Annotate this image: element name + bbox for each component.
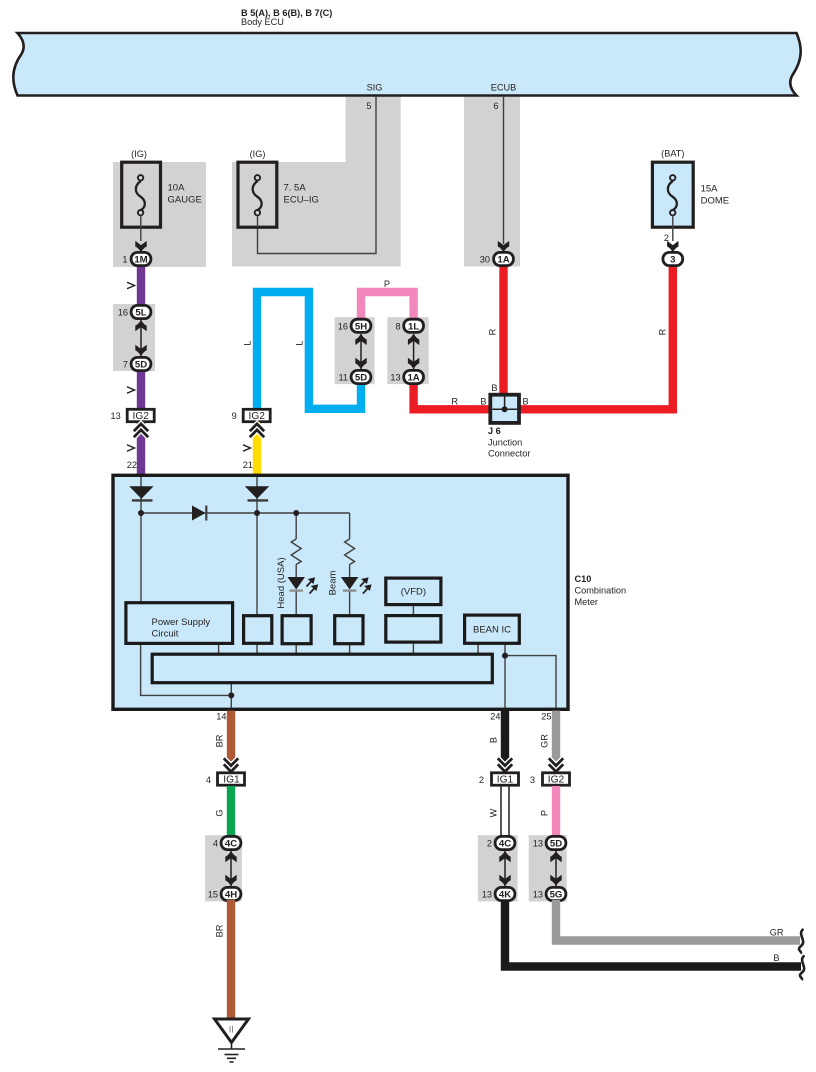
svg-text:GAUGE: GAUGE	[168, 195, 202, 206]
svg-text:W: W	[489, 808, 499, 817]
svg-text:Power Supply: Power Supply	[152, 617, 211, 628]
svg-text:13: 13	[110, 411, 120, 421]
connector oval 3 (DOME)	[663, 252, 683, 265]
svg-text:Body ECU: Body ECU	[241, 17, 284, 27]
gray shade connector 5L/5D	[113, 304, 155, 371]
svg-text:B: B	[491, 383, 497, 393]
wire boxA to busbar	[256, 643, 258, 654]
svg-text:4H: 4H	[225, 890, 237, 901]
junction dot 3	[293, 510, 299, 516]
svg-text:II: II	[229, 1025, 234, 1035]
svg-text:B: B	[489, 737, 499, 743]
svg-text:2: 2	[479, 775, 484, 785]
svg-text:22: 22	[127, 460, 137, 470]
IG1 box right	[479, 773, 519, 786]
chevrons above IG2 right	[549, 758, 563, 771]
svg-text:Beam: Beam	[328, 571, 339, 596]
svg-text:B: B	[773, 953, 779, 963]
svg-text:4C: 4C	[225, 839, 237, 850]
gray shade fuse1 GAUGE area	[113, 162, 206, 267]
svg-text:10A: 10A	[168, 183, 186, 194]
wire bus bottom to pin14	[230, 683, 232, 708]
svg-text:14: 14	[216, 712, 226, 722]
junction dot 4 (PSU/pin14)	[228, 692, 234, 698]
svg-text:13: 13	[482, 890, 492, 900]
svg-text:11: 11	[338, 373, 348, 383]
connector pair 4C/4H	[208, 836, 241, 900]
connector oval 1A (ECUB)	[480, 252, 514, 265]
svg-text:15A: 15A	[701, 184, 719, 195]
wire green IG1 to 4C	[227, 786, 235, 837]
junction dot 1	[138, 510, 144, 516]
gray shade ECUB channel	[464, 96, 520, 267]
meter internals	[141, 477, 556, 708]
LED head	[288, 577, 318, 594]
wire brown pin14 to IG1	[227, 711, 235, 762]
wire blue L	[257, 292, 361, 409]
connector pair 5H/5D	[338, 319, 371, 383]
svg-text:C10: C10	[575, 574, 592, 584]
svg-text:B: B	[480, 397, 486, 407]
svg-text:1L: 1L	[408, 321, 419, 332]
wire purple IG2 to meter	[137, 422, 145, 477]
wire ECUB pin 6 down to 1A	[503, 97, 505, 244]
resistor R head	[291, 539, 301, 565]
chevrons above IG1 right	[498, 758, 512, 771]
connector pair 5L/5D	[118, 305, 151, 370]
svg-text:4: 4	[206, 775, 211, 785]
wire BEAN to pin 24	[504, 643, 506, 708]
box C	[335, 616, 363, 644]
wire PSU to busbar	[218, 643, 220, 654]
wire boxC to busbar	[349, 644, 351, 654]
fuse ECU-IG 7.5A	[238, 149, 319, 227]
svg-text:1M: 1M	[134, 255, 147, 266]
svg-text:Junction: Junction	[488, 438, 522, 448]
svg-text:ECU–IG: ECU–IG	[284, 195, 319, 206]
VFD box	[386, 616, 441, 643]
svg-text:BR: BR	[215, 924, 225, 937]
wire boxB to busbar	[295, 644, 297, 654]
svg-text:6: 6	[493, 101, 498, 111]
power supply circuit box	[126, 603, 233, 644]
box B	[282, 616, 311, 644]
connector pair 4C/4K	[482, 836, 515, 900]
gray shade connector 4C/4H	[205, 835, 242, 901]
svg-text:15: 15	[208, 890, 218, 900]
wire purple 1M to IG2	[137, 263, 145, 309]
svg-text:J 6: J 6	[488, 426, 501, 436]
wire pink P top	[361, 292, 414, 322]
svg-text:(BAT): (BAT)	[661, 149, 684, 159]
svg-text:4C: 4C	[499, 839, 511, 850]
svg-text:1A: 1A	[497, 255, 509, 266]
wire black 4K to right	[505, 900, 801, 967]
svg-text:4K: 4K	[499, 890, 511, 901]
wire SIG pin 5 to fuse ECU-IG	[258, 97, 377, 254]
IG2 box purple	[110, 409, 154, 422]
wire pink IG2 to 6D	[552, 786, 560, 837]
svg-text:25: 25	[541, 712, 551, 722]
gray shade connector 6D/5G	[529, 835, 567, 901]
gray shade connector 4C/4K	[478, 835, 518, 901]
chevrons below IG2 purple	[134, 424, 148, 437]
combination meter box	[113, 475, 568, 709]
IG2 box right	[530, 773, 570, 786]
chevrons below IG2 yellow	[250, 424, 264, 437]
wire black pin24 to IG1	[501, 711, 509, 762]
svg-text:Head (USA): Head (USA)	[276, 557, 287, 608]
wire pin21 to diode	[256, 477, 258, 487]
svg-text:4: 4	[213, 839, 218, 849]
svg-text:2: 2	[487, 839, 492, 849]
svg-text:5G: 5G	[550, 890, 563, 901]
wire PSU left down	[141, 643, 232, 695]
break mark gray wire	[799, 929, 804, 954]
arrow into 1A	[498, 241, 509, 252]
wire mark > purple 1	[127, 282, 135, 288]
svg-text:L: L	[295, 340, 305, 345]
fuse GAUGE 10A	[122, 149, 202, 241]
connector oval 1M	[122, 252, 151, 265]
svg-text:R: R	[488, 328, 498, 335]
svg-text:Combination: Combination	[575, 586, 627, 596]
connector pair 1L/1A	[390, 319, 423, 383]
svg-text:5H: 5H	[355, 321, 367, 332]
gray shade connector 1L/1A	[387, 317, 428, 384]
break mark black wire	[800, 956, 805, 981]
BEAN IC box	[465, 615, 520, 643]
svg-text:B: B	[523, 397, 529, 407]
svg-text:3: 3	[530, 775, 535, 785]
svg-text:R: R	[658, 328, 668, 335]
wire mark > yellow	[243, 445, 251, 451]
svg-text:30: 30	[480, 255, 490, 265]
wire BEAN to busbar	[477, 643, 479, 654]
svg-text:7: 7	[123, 360, 128, 370]
IG1 box left	[206, 773, 245, 786]
svg-text:(VFD): (VFD)	[401, 587, 426, 598]
svg-text:7. 5A: 7. 5A	[284, 183, 307, 194]
svg-text:Connector: Connector	[488, 449, 530, 459]
wire mark > purple 3	[127, 445, 135, 451]
wire gray pin25 to IG2	[552, 711, 560, 762]
svg-text:BEAN IC: BEAN IC	[473, 625, 511, 636]
svg-text:3: 3	[670, 255, 675, 266]
diode D1	[129, 486, 153, 499]
svg-text:SIG: SIG	[367, 83, 383, 93]
svg-text:9: 9	[232, 411, 237, 421]
svg-text:1: 1	[122, 255, 127, 265]
Body ECU band	[13, 33, 800, 96]
junction dot 2	[254, 510, 260, 516]
chevrons above IG1 left	[224, 758, 238, 771]
LED beam	[341, 577, 371, 594]
wire pin22 to diode	[140, 477, 142, 487]
junction connector J6	[488, 395, 530, 459]
box A	[244, 616, 272, 644]
ground	[215, 1019, 249, 1062]
svg-text:DOME: DOME	[701, 196, 730, 207]
svg-text:L: L	[243, 340, 253, 345]
svg-text:P: P	[384, 279, 390, 289]
svg-text:BR: BR	[215, 734, 225, 747]
svg-text:ECUB: ECUB	[491, 83, 517, 93]
fuse DOME 15A	[652, 149, 729, 244]
gray shade fuse2 ECU-IG + SIG channel	[232, 96, 401, 267]
bus bar	[152, 654, 492, 683]
svg-text:24: 24	[490, 712, 500, 722]
svg-text:5D: 5D	[135, 360, 147, 371]
wire VFD to busbar	[412, 642, 414, 654]
svg-text:13: 13	[533, 839, 543, 849]
wire branch to pin 25	[505, 656, 556, 708]
VFD label box	[386, 578, 441, 605]
svg-text:5L: 5L	[135, 308, 146, 319]
diode D3 horizontal	[192, 506, 206, 521]
wire gray 5G to right	[556, 900, 800, 941]
svg-text:21: 21	[243, 460, 253, 470]
diode D2	[245, 486, 269, 499]
svg-text:5D: 5D	[550, 839, 562, 850]
arrow into 3	[667, 241, 678, 252]
wire white IG1 to 4C	[501, 786, 509, 837]
svg-text:16: 16	[118, 308, 128, 318]
svg-text:Meter: Meter	[575, 597, 599, 607]
gray shade connector 5H/5D	[335, 317, 375, 384]
svg-text:G: G	[215, 809, 225, 816]
svg-text:GR: GR	[770, 928, 784, 938]
wire VFD label to box	[412, 605, 414, 616]
svg-text:IG2: IG2	[548, 775, 565, 786]
connector pair 6D/5G	[533, 836, 566, 900]
IG2 box yellow	[232, 409, 271, 422]
svg-text:5: 5	[366, 101, 371, 111]
svg-text:1A: 1A	[407, 373, 419, 384]
svg-text:13: 13	[390, 373, 400, 383]
wire resistor branch 2	[349, 513, 351, 539]
wire diode1 to PSU	[140, 498, 142, 603]
wire resistor branch 1	[295, 513, 297, 539]
svg-text:Circuit: Circuit	[152, 629, 179, 640]
wire horizontal bus y513	[141, 512, 350, 514]
svg-text:13: 13	[533, 890, 543, 900]
wire yellow IG2 to meter	[253, 422, 261, 477]
svg-text:5D: 5D	[355, 373, 367, 384]
svg-text:(IG): (IG)	[250, 149, 266, 159]
resistor R beam	[345, 539, 355, 565]
wire red from 1A-2 to junction to DOME 3	[414, 263, 673, 409]
arrow into 1M	[135, 241, 146, 252]
svg-text:IG1: IG1	[497, 775, 514, 786]
wire mark > purple 2	[127, 387, 135, 393]
wire diode2 down to box A	[256, 498, 258, 616]
svg-text:16: 16	[338, 321, 348, 331]
svg-text:R: R	[451, 397, 458, 407]
wire brown 4H to ground	[227, 900, 235, 1019]
svg-text:8: 8	[395, 321, 400, 331]
svg-text:P: P	[540, 810, 550, 816]
wire red ECUB 1A down to junction	[499, 263, 507, 400]
junction dot 5 (BEAN/pin24)	[502, 653, 508, 659]
svg-text:(IG): (IG)	[131, 149, 147, 159]
svg-text:2: 2	[664, 233, 669, 243]
svg-text:IG1: IG1	[223, 775, 240, 786]
svg-text:GR: GR	[540, 734, 550, 748]
